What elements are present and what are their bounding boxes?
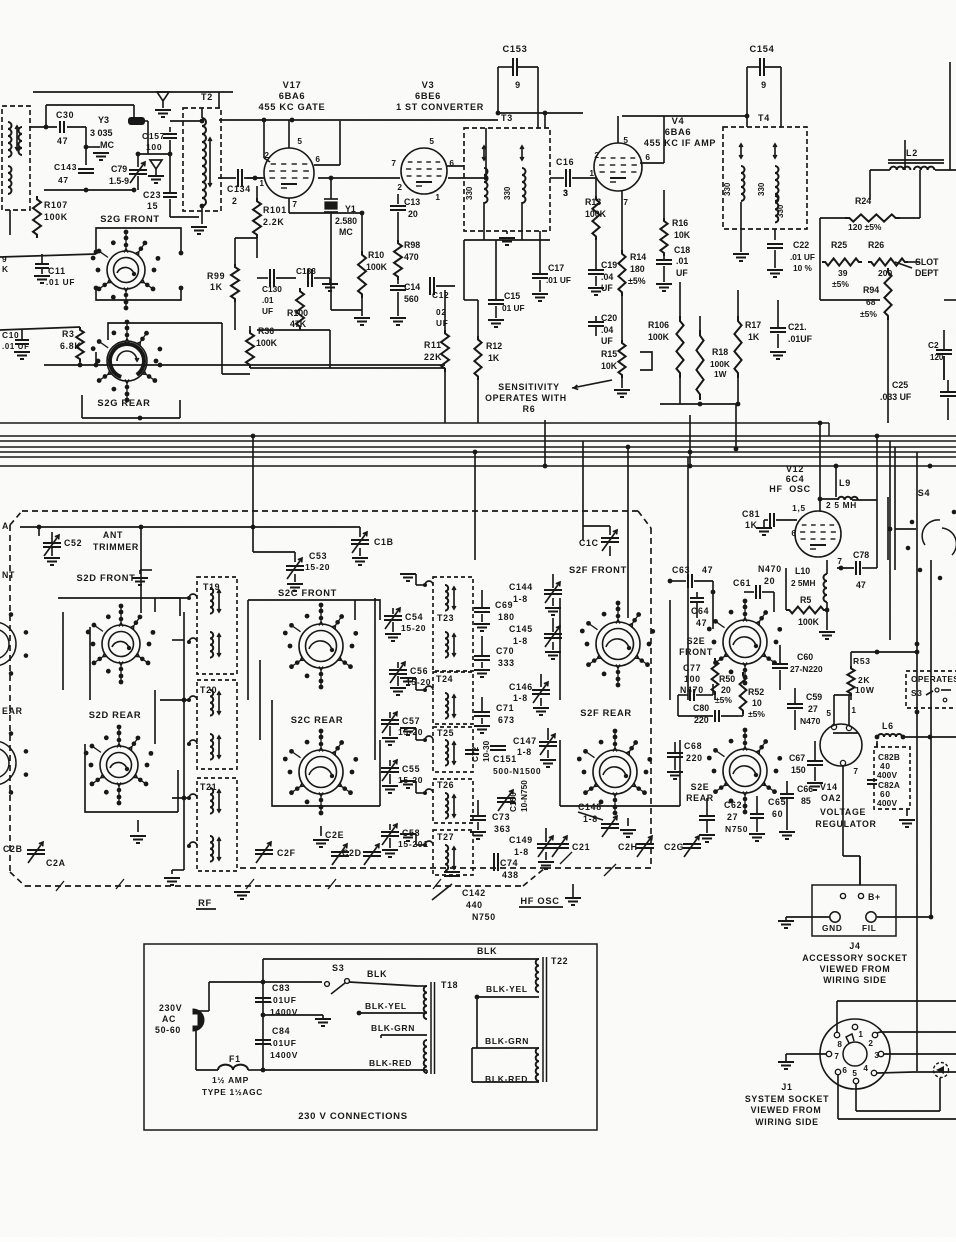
svg-text:10K: 10K: [601, 361, 618, 371]
svg-text:L10: L10: [795, 566, 810, 576]
svg-text:OA2: OA2: [821, 793, 841, 803]
svg-text:S2D REAR: S2D REAR: [89, 710, 142, 720]
svg-text:V4: V4: [672, 116, 685, 126]
svg-text:1K: 1K: [745, 520, 758, 530]
svg-text:7: 7: [853, 766, 858, 776]
svg-text:TYPE 1½AGC: TYPE 1½AGC: [202, 1087, 263, 1097]
svg-text:.01UF: .01UF: [788, 334, 813, 344]
svg-text:S3: S3: [332, 963, 344, 973]
svg-text:R101: R101: [263, 205, 287, 215]
svg-text:N470: N470: [680, 685, 704, 695]
svg-text:S2D FRONT: S2D FRONT: [77, 573, 136, 583]
svg-text:27: 27: [808, 704, 818, 714]
svg-text:C13: C13: [404, 197, 420, 207]
svg-text:S2F FRONT: S2F FRONT: [569, 565, 627, 575]
svg-text:BLK-GRN: BLK-GRN: [371, 1023, 415, 1033]
svg-text:C65: C65: [768, 797, 786, 807]
svg-text:180: 180: [498, 612, 515, 622]
svg-text:C130: C130: [262, 284, 282, 294]
svg-text:230 V CONNECTIONS: 230 V CONNECTIONS: [298, 1111, 408, 1122]
svg-text:8: 8: [837, 1040, 842, 1049]
svg-text:100K: 100K: [256, 338, 278, 348]
svg-text:C2: C2: [928, 340, 939, 350]
svg-text:68: 68: [866, 297, 876, 307]
svg-text:673: 673: [498, 715, 515, 725]
svg-text:10-N750: 10-N750: [519, 780, 529, 812]
svg-text:47: 47: [58, 175, 69, 185]
svg-text:R17: R17: [745, 320, 761, 330]
svg-text:R3: R3: [62, 329, 75, 339]
svg-text:2: 2: [397, 182, 402, 192]
svg-text:EAR: EAR: [2, 706, 23, 716]
svg-text:C1B: C1B: [374, 537, 394, 547]
svg-text:V12: V12: [786, 464, 804, 474]
svg-text:R10: R10: [368, 250, 384, 260]
svg-text:UF: UF: [262, 306, 273, 316]
svg-text:6BA6: 6BA6: [665, 127, 692, 137]
svg-text:A: A: [2, 521, 9, 531]
svg-text:V17: V17: [283, 80, 302, 90]
svg-text:C1C: C1C: [579, 538, 599, 548]
svg-text:C52: C52: [64, 538, 82, 548]
svg-text:T24: T24: [436, 674, 453, 684]
svg-text:T3: T3: [501, 113, 513, 123]
svg-text:C23: C23: [143, 190, 161, 200]
svg-text:AC: AC: [162, 1014, 176, 1024]
svg-text:C68: C68: [684, 741, 702, 751]
svg-text:1½ AMP: 1½ AMP: [212, 1075, 249, 1085]
svg-text:R98: R98: [404, 240, 420, 250]
svg-text:C2E: C2E: [325, 830, 344, 840]
svg-text:S2C FRONT: S2C FRONT: [278, 588, 337, 598]
svg-text:C15: C15: [504, 291, 520, 301]
svg-text:FRONT: FRONT: [679, 647, 713, 657]
svg-text:HF: HF: [769, 484, 782, 494]
svg-text:1,5: 1,5: [792, 503, 806, 513]
svg-text:R25: R25: [831, 240, 847, 250]
svg-text:C19: C19: [601, 260, 617, 270]
svg-text:C153: C153: [502, 44, 527, 54]
svg-text:SLOT: SLOT: [915, 257, 939, 267]
svg-text:6BE6: 6BE6: [415, 91, 441, 101]
svg-text:20: 20: [408, 209, 418, 219]
svg-text:SENSITIVITY: SENSITIVITY: [498, 382, 559, 392]
svg-text:REAR: REAR: [686, 793, 714, 803]
svg-text:C73: C73: [492, 812, 510, 822]
svg-text:5: 5: [623, 135, 628, 145]
svg-text:FIL: FIL: [862, 923, 877, 933]
svg-text:9: 9: [2, 254, 7, 264]
svg-text:N470: N470: [800, 716, 821, 726]
svg-text:4: 4: [863, 1064, 868, 1073]
svg-text:230V: 230V: [159, 1003, 182, 1013]
svg-text:C66: C66: [797, 784, 813, 794]
svg-text:TRIMMER: TRIMMER: [93, 542, 139, 552]
svg-text:2.580: 2.580: [335, 216, 357, 226]
svg-text:±5%: ±5%: [748, 709, 765, 719]
svg-text:20: 20: [764, 576, 775, 586]
svg-text:9: 9: [761, 80, 767, 90]
svg-text:39: 39: [838, 268, 848, 278]
svg-text:UF: UF: [601, 336, 613, 346]
svg-text:6: 6: [645, 152, 650, 162]
svg-text:C145: C145: [509, 624, 533, 634]
svg-text:T23: T23: [437, 613, 454, 623]
svg-text:R12: R12: [486, 341, 502, 351]
svg-text:C25: C25: [892, 380, 908, 390]
svg-text:15: 15: [147, 201, 158, 211]
svg-text:C142: C142: [462, 888, 486, 898]
svg-text:400V: 400V: [877, 798, 897, 808]
svg-text:WIRING SIDE: WIRING SIDE: [823, 975, 886, 985]
svg-text:UF: UF: [436, 318, 448, 328]
svg-text:T2: T2: [201, 92, 213, 102]
svg-text:60: 60: [772, 809, 783, 819]
svg-text:R94: R94: [863, 285, 879, 295]
svg-text:100: 100: [146, 142, 162, 152]
svg-text:J4: J4: [849, 941, 860, 951]
svg-text:C61: C61: [733, 578, 751, 588]
svg-text:330: 330: [757, 182, 766, 196]
svg-text:120 ±5%: 120 ±5%: [848, 222, 882, 232]
svg-text:C56: C56: [410, 666, 428, 676]
svg-text:.033 UF: .033 UF: [880, 392, 912, 402]
svg-text:C17: C17: [548, 263, 564, 273]
svg-text:T19: T19: [203, 582, 220, 592]
svg-text:C16: C16: [556, 157, 574, 167]
svg-text:BLK-YEL: BLK-YEL: [486, 984, 528, 994]
svg-text:C62: C62: [724, 800, 742, 810]
svg-text:C21.: C21.: [788, 322, 807, 332]
svg-text:C57: C57: [402, 716, 420, 726]
svg-text:C64: C64: [691, 606, 709, 616]
svg-text:RF: RF: [198, 898, 212, 908]
svg-text:BLK: BLK: [477, 946, 497, 956]
svg-text:±5%: ±5%: [715, 695, 732, 705]
svg-text:3 035: 3 035: [90, 128, 113, 138]
svg-text:1-8: 1-8: [513, 594, 528, 604]
svg-text:T20: T20: [200, 685, 217, 695]
svg-text:100K: 100K: [648, 332, 670, 342]
svg-text:C2H: C2H: [618, 842, 638, 852]
svg-text:L6: L6: [882, 721, 894, 731]
svg-text:.01UF: .01UF: [270, 1038, 297, 1048]
svg-text:2: 2: [594, 150, 599, 160]
svg-text:MC: MC: [100, 140, 114, 150]
svg-text:10W: 10W: [855, 685, 875, 695]
svg-text:7: 7: [834, 1052, 839, 1061]
svg-text:333: 333: [498, 658, 515, 668]
svg-text:B+: B+: [868, 892, 881, 902]
svg-text:01 UF: 01 UF: [502, 303, 525, 313]
svg-text:REGULATOR: REGULATOR: [815, 819, 876, 829]
svg-text:C81: C81: [742, 509, 760, 519]
svg-text:47: 47: [856, 580, 866, 590]
svg-text:2 5 MH: 2 5 MH: [826, 500, 857, 510]
svg-text:100K: 100K: [798, 617, 820, 627]
svg-text:3: 3: [874, 1051, 879, 1060]
svg-text:7: 7: [623, 197, 628, 207]
svg-text:6BA6: 6BA6: [279, 91, 306, 101]
svg-text:BLK: BLK: [367, 969, 387, 979]
svg-text:C70: C70: [496, 646, 514, 656]
svg-text:C149: C149: [509, 835, 533, 845]
svg-text:470: 470: [404, 252, 419, 262]
svg-text:R26: R26: [868, 240, 884, 250]
svg-text:S2G REAR: S2G REAR: [97, 398, 150, 408]
svg-text:C69: C69: [495, 600, 513, 610]
svg-text:C71: C71: [496, 703, 514, 713]
svg-text:R11: R11: [424, 340, 442, 350]
svg-text:C133: C133: [296, 266, 316, 276]
svg-text:Y3: Y3: [98, 115, 109, 125]
svg-text:R5: R5: [800, 595, 811, 605]
svg-text:10-30: 10-30: [481, 740, 491, 762]
svg-text:R52: R52: [748, 687, 764, 697]
svg-text:1: 1: [589, 168, 594, 178]
svg-text:440: 440: [466, 900, 483, 910]
svg-text:BLK-RED: BLK-RED: [369, 1058, 412, 1068]
svg-text:2: 2: [868, 1039, 873, 1048]
svg-text:R14: R14: [630, 252, 646, 262]
svg-text:N470: N470: [758, 564, 782, 574]
svg-text:R99: R99: [207, 271, 225, 281]
svg-text:1K: 1K: [210, 282, 223, 292]
svg-text:2: 2: [232, 196, 238, 206]
svg-text:1K: 1K: [488, 353, 500, 363]
svg-text:OPERATES WITH: OPERATES WITH: [485, 393, 567, 403]
svg-text:10: 10: [752, 698, 762, 708]
svg-text:T22: T22: [551, 956, 568, 966]
svg-text:T21: T21: [200, 782, 217, 792]
svg-text:10 %: 10 %: [793, 263, 813, 273]
svg-text:2.2K: 2.2K: [263, 217, 284, 227]
svg-text:R24: R24: [855, 196, 871, 206]
svg-text:47: 47: [57, 136, 68, 146]
svg-text:9: 9: [515, 80, 521, 90]
svg-text:C2G: C2G: [664, 842, 684, 852]
svg-text:6: 6: [315, 154, 320, 164]
svg-text:R16: R16: [672, 218, 688, 228]
svg-text:S2E: S2E: [687, 636, 706, 646]
svg-text:J1: J1: [781, 1082, 792, 1092]
svg-text:100: 100: [684, 674, 701, 684]
svg-text:1: 1: [435, 192, 440, 202]
svg-text:T4: T4: [758, 113, 770, 123]
svg-text:WIRING SIDE: WIRING SIDE: [755, 1117, 818, 1127]
svg-text:1.5-9: 1.5-9: [109, 176, 129, 186]
svg-text:1 ST CONVERTER: 1 ST CONVERTER: [396, 102, 484, 112]
svg-text:C2B: C2B: [3, 844, 23, 854]
svg-text:T27: T27: [437, 832, 454, 842]
svg-text:C54: C54: [405, 612, 423, 622]
svg-text:1: 1: [858, 1030, 863, 1039]
svg-text:27-N220: 27-N220: [790, 664, 823, 674]
svg-text:120: 120: [930, 353, 944, 362]
svg-text:C10: C10: [2, 330, 19, 340]
svg-text:2 5MH: 2 5MH: [791, 578, 815, 588]
svg-text:C55: C55: [402, 764, 420, 774]
svg-text:R50: R50: [719, 674, 735, 684]
svg-text:1: 1: [259, 178, 264, 188]
svg-text:220: 220: [686, 753, 703, 763]
svg-text:85: 85: [801, 796, 811, 806]
svg-text:N750: N750: [472, 912, 496, 922]
svg-text:C151: C151: [493, 754, 517, 764]
svg-text:DEPT: DEPT: [915, 268, 939, 278]
svg-text:T25: T25: [437, 728, 454, 738]
svg-text:C79: C79: [111, 164, 127, 174]
svg-text:S2G FRONT: S2G FRONT: [100, 214, 160, 224]
svg-text:C157: C157: [142, 131, 165, 141]
svg-text:GND: GND: [822, 923, 843, 933]
svg-text:.01: .01: [676, 256, 688, 266]
svg-text:R106: R106: [648, 320, 669, 330]
svg-text:6: 6: [791, 528, 796, 538]
svg-text:500-N1500: 500-N1500: [493, 766, 541, 776]
svg-text:K: K: [2, 264, 9, 274]
svg-text:180: 180: [630, 264, 645, 274]
svg-text:S2E: S2E: [691, 782, 710, 792]
svg-text:UF: UF: [676, 268, 688, 278]
svg-text:BLK-GRN: BLK-GRN: [485, 1036, 529, 1046]
svg-text:S2C REAR: S2C REAR: [291, 715, 344, 725]
svg-text:C30: C30: [56, 110, 74, 120]
svg-text:C143: C143: [54, 162, 77, 172]
svg-text:F1: F1: [229, 1054, 241, 1064]
svg-text:C14: C14: [404, 282, 420, 292]
svg-text:.01: .01: [262, 295, 274, 305]
svg-text:15-20: 15-20: [401, 623, 426, 633]
svg-text:S4: S4: [918, 488, 930, 498]
svg-text:6: 6: [842, 1066, 847, 1075]
svg-text:.01UF: .01UF: [270, 995, 297, 1005]
svg-text:HF OSC: HF OSC: [520, 896, 559, 906]
svg-text:R107: R107: [44, 200, 68, 210]
svg-text:47: 47: [696, 618, 707, 628]
svg-text:T26: T26: [437, 780, 454, 790]
svg-text:C146: C146: [509, 682, 533, 692]
svg-text:±5%: ±5%: [628, 276, 646, 286]
svg-text:560: 560: [404, 294, 419, 304]
svg-text:363: 363: [494, 824, 511, 834]
svg-text:C83: C83: [272, 983, 290, 993]
svg-text:47: 47: [702, 565, 713, 575]
svg-text:C74: C74: [500, 858, 518, 868]
svg-text:VOLTAGE: VOLTAGE: [820, 807, 866, 817]
svg-text:1-8: 1-8: [513, 693, 528, 703]
svg-text:150: 150: [791, 765, 806, 775]
svg-text:47K: 47K: [290, 319, 307, 329]
svg-text:R15: R15: [601, 349, 617, 359]
svg-text:5: 5: [297, 136, 302, 146]
svg-text:100K: 100K: [44, 212, 68, 222]
svg-text:C59: C59: [806, 692, 822, 702]
svg-text:3: 3: [563, 188, 568, 198]
svg-text:455 KC IF AMP: 455 KC IF AMP: [644, 138, 716, 148]
svg-text:5: 5: [826, 708, 831, 718]
svg-text:27: 27: [727, 812, 738, 822]
svg-text:22K: 22K: [424, 352, 442, 362]
svg-text:10K: 10K: [674, 230, 691, 240]
svg-text:NT: NT: [2, 570, 15, 580]
svg-text:C154: C154: [749, 44, 774, 54]
svg-text:455 KC GATE: 455 KC GATE: [259, 102, 326, 112]
svg-text:438: 438: [502, 870, 519, 880]
svg-text:C84: C84: [272, 1026, 290, 1036]
svg-text:330: 330: [723, 182, 732, 196]
svg-text:50-60: 50-60: [155, 1025, 181, 1035]
svg-text:MC: MC: [339, 227, 353, 237]
svg-text:5: 5: [429, 136, 434, 146]
svg-text:1: 1: [851, 705, 856, 715]
svg-text:2K: 2K: [858, 675, 870, 685]
svg-text:1400V: 1400V: [270, 1050, 298, 1060]
svg-text:400V: 400V: [877, 770, 897, 780]
svg-text:C2A: C2A: [46, 858, 66, 868]
svg-text:C21: C21: [572, 842, 590, 852]
svg-text:R18: R18: [712, 347, 728, 357]
svg-text:15-20: 15-20: [305, 562, 330, 572]
svg-text:C2D: C2D: [342, 848, 362, 858]
svg-text:SYSTEM SOCKET: SYSTEM SOCKET: [745, 1094, 829, 1104]
svg-text:OSC: OSC: [789, 484, 811, 494]
svg-text:L9: L9: [839, 478, 851, 488]
svg-text:C78: C78: [853, 550, 869, 560]
svg-text:VIEWED FROM: VIEWED FROM: [751, 1105, 822, 1115]
svg-text:R6: R6: [523, 404, 536, 414]
svg-text:C11: C11: [48, 266, 66, 276]
svg-text:VIEWED FROM: VIEWED FROM: [820, 964, 891, 974]
svg-text:C22: C22: [793, 240, 809, 250]
svg-text:C144: C144: [509, 582, 533, 592]
svg-text:C77: C77: [683, 663, 701, 673]
svg-text:R53: R53: [853, 656, 871, 666]
svg-text:±5%: ±5%: [860, 309, 877, 319]
svg-text:C148: C148: [578, 802, 602, 812]
svg-text:20: 20: [721, 685, 731, 695]
svg-text:C60: C60: [797, 652, 813, 662]
svg-text:C2F: C2F: [277, 848, 296, 858]
svg-text:1-8: 1-8: [514, 847, 529, 857]
svg-text:100K: 100K: [366, 262, 388, 272]
svg-text:1-8: 1-8: [517, 747, 532, 757]
svg-text:7: 7: [391, 158, 396, 168]
svg-text:6C4: 6C4: [786, 474, 805, 484]
svg-text:BLK-YEL: BLK-YEL: [365, 1001, 407, 1011]
svg-text:.01 UF: .01 UF: [790, 252, 815, 262]
svg-text:1-8: 1-8: [513, 636, 528, 646]
svg-text:L2: L2: [906, 148, 918, 158]
svg-text:ANT: ANT: [103, 530, 123, 540]
svg-text:C18: C18: [674, 245, 690, 255]
svg-text:5: 5: [852, 1069, 857, 1078]
svg-text:C80: C80: [693, 703, 709, 713]
svg-text:330: 330: [503, 186, 512, 200]
svg-text:1W: 1W: [714, 369, 727, 379]
svg-text:C67: C67: [789, 753, 805, 763]
svg-text:±5%: ±5%: [832, 279, 849, 289]
svg-text:V3: V3: [422, 80, 435, 90]
svg-text:330: 330: [465, 186, 474, 200]
svg-text:S2F REAR: S2F REAR: [580, 708, 632, 718]
svg-text:.01 UF: .01 UF: [546, 275, 571, 285]
svg-text:N750: N750: [725, 824, 748, 834]
svg-text:1K: 1K: [748, 332, 760, 342]
svg-text:7: 7: [292, 199, 297, 209]
svg-text:T18: T18: [441, 980, 458, 990]
svg-text:7: 7: [837, 556, 842, 566]
